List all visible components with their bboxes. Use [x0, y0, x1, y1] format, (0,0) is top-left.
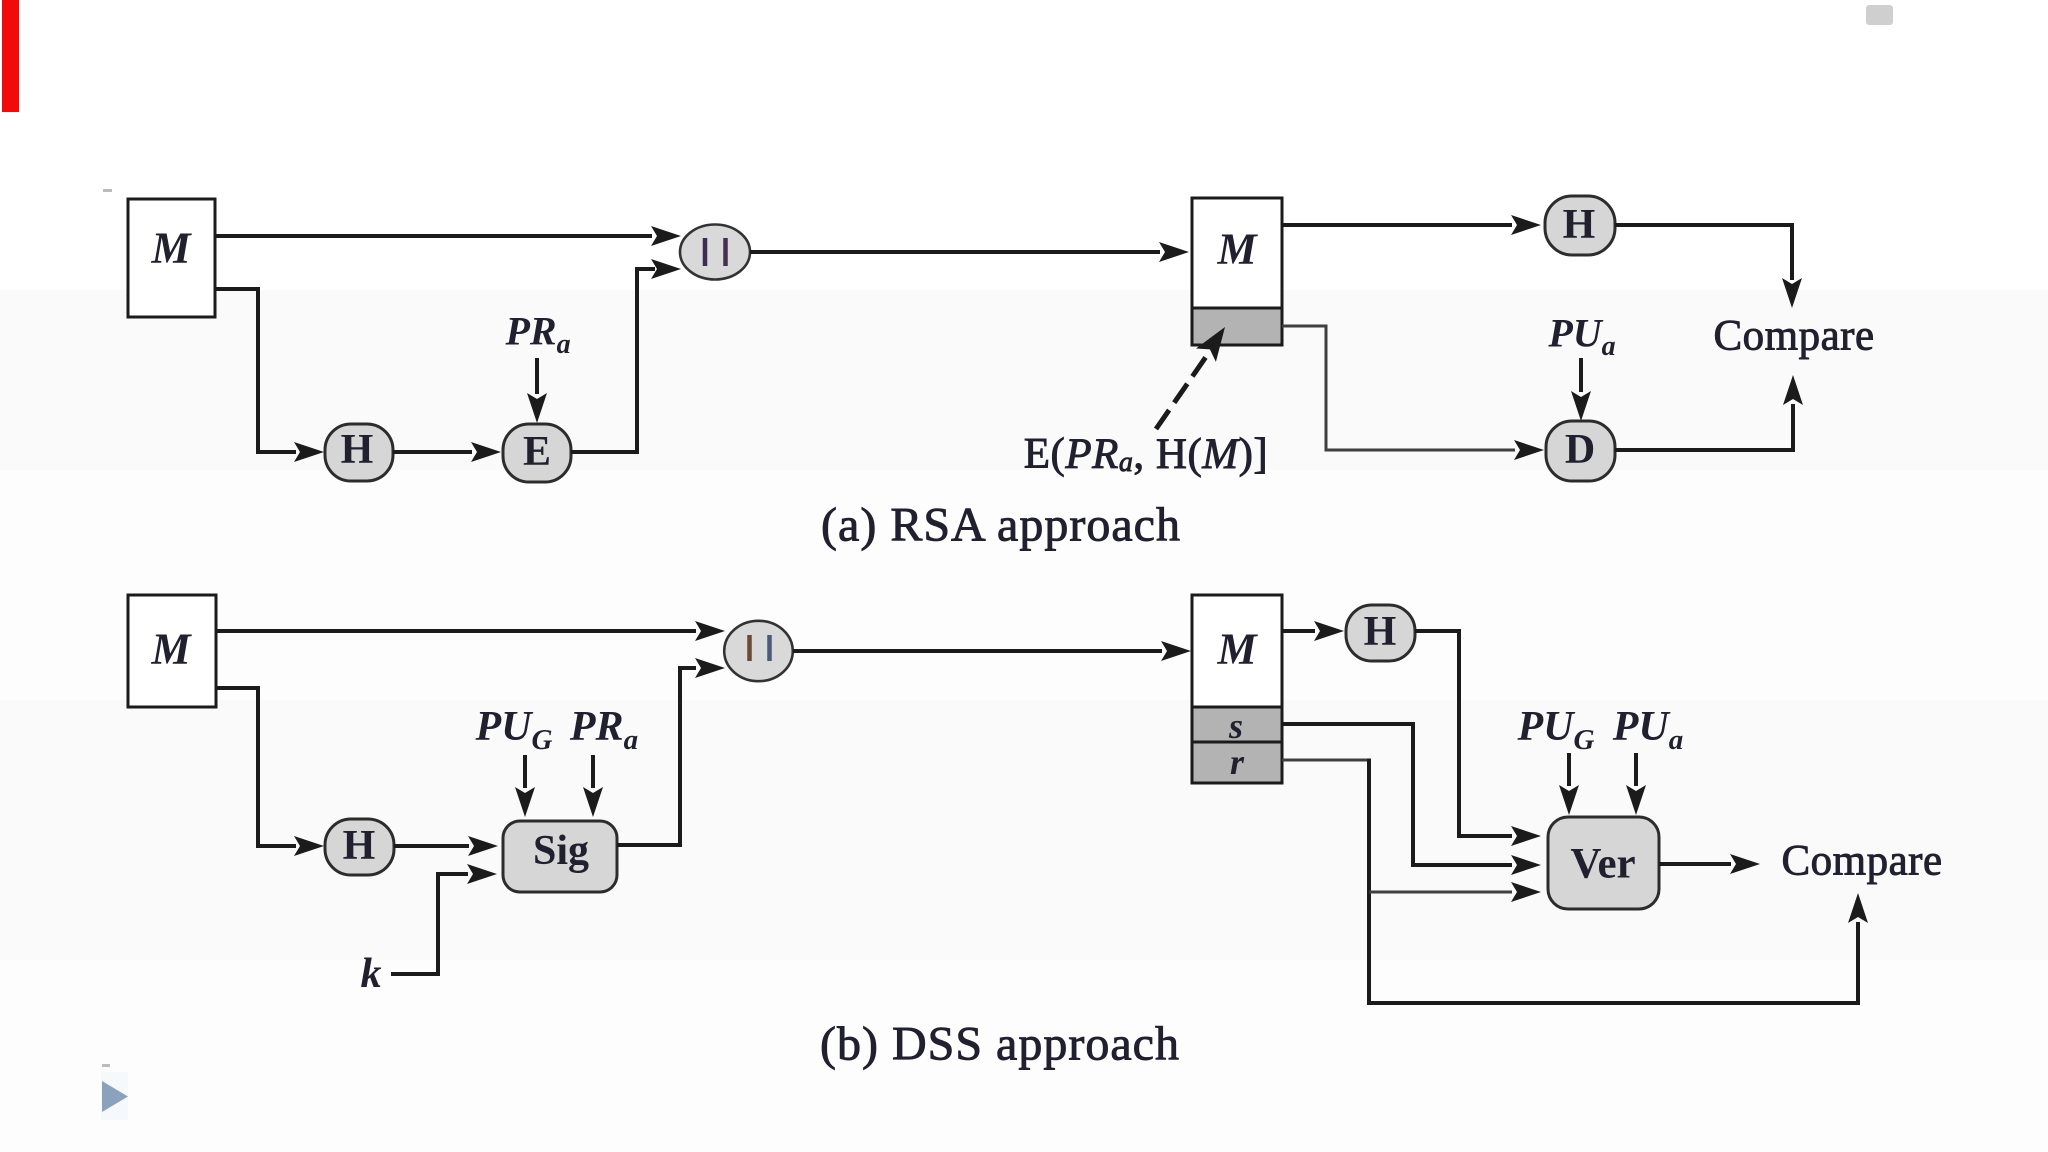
wire E up to concat (a) — [571, 259, 681, 452]
wire H to E (a) — [393, 442, 501, 462]
r block (b) — [1192, 742, 1282, 783]
message box M (b-right) — [1192, 595, 1282, 707]
branch wire r to Ver third input (b) — [1369, 882, 1541, 902]
small dash bottom-left — [102, 1064, 110, 1067]
wire s to Ver second input (b) — [1282, 724, 1541, 875]
wire k to Sig (b) — [391, 864, 497, 974]
svg-text:M: M — [150, 625, 192, 674]
wire H to Ver first input (b) — [1415, 631, 1541, 846]
small dash above message box (a) — [103, 189, 112, 192]
concat node || (a) — [680, 225, 750, 280]
svg-text:k: k — [361, 951, 382, 997]
wire signature block to D (a) — [1282, 326, 1544, 460]
svg-text:E(PRa, H(M)]: E(PRa, H(M)] — [1024, 431, 1268, 478]
gray widget top-right — [1866, 5, 1893, 25]
svg-text:M: M — [1216, 625, 1258, 674]
wire PRa down to E (a) — [527, 358, 547, 423]
wire M top to concat (b) — [216, 621, 725, 641]
svg-text:H: H — [341, 427, 374, 473]
sign node Sig (b) — [503, 821, 617, 892]
wire PUG down to Ver (b) — [1559, 753, 1579, 815]
svg-text:M: M — [1216, 225, 1258, 274]
signature gray block (a) — [1192, 308, 1282, 345]
wire M bottom to H (b) — [216, 688, 324, 856]
svg-text:H: H — [343, 823, 376, 869]
decrypt node D (a) — [1546, 421, 1615, 481]
svg-text:H: H — [1563, 202, 1596, 248]
svg-text:M: M — [150, 224, 192, 273]
svg-text:Ver: Ver — [1570, 841, 1635, 888]
dashed arrow to signature block (a) — [1156, 327, 1225, 429]
wire PUa down to D (a) — [1571, 358, 1591, 421]
hash node H (a-left) — [325, 424, 393, 481]
encrypt node E (a) — [503, 424, 571, 482]
svg-text:H: H — [1364, 609, 1397, 655]
s block (b) — [1192, 706, 1282, 746]
wire concat to M (a-right) — [750, 242, 1189, 262]
wire M top to concat (a) — [215, 226, 681, 246]
wire Ver to Compare (b) — [1659, 854, 1760, 874]
concat node || (b) — [724, 621, 793, 681]
svg-text:Sig: Sig — [533, 828, 589, 874]
hash node H (b-left) — [325, 819, 394, 875]
wire concat to M (b-right) — [793, 641, 1191, 661]
wire M bottom to H (a) — [215, 289, 324, 462]
wire M right to H (a-right) — [1282, 215, 1541, 235]
message box M (b-left) — [128, 595, 216, 707]
wire PRa down to Sig (b) — [583, 755, 603, 817]
slide bullet triangle — [102, 1081, 128, 1112]
wire H down to Compare (a) — [1615, 225, 1802, 308]
svg-text:(a) RSA approach: (a) RSA approach — [821, 499, 1181, 552]
wire M to H (b-right) — [1282, 621, 1344, 641]
message box M (a-right) — [1192, 198, 1282, 308]
verify node Ver (b) — [1548, 817, 1659, 909]
svg-text:E: E — [523, 429, 551, 475]
svg-text:D: D — [1565, 427, 1595, 473]
svg-text:Compare: Compare — [1713, 313, 1874, 360]
wire PUG down to Sig (b) — [515, 755, 535, 817]
red bar top-left — [2, 0, 19, 112]
message box M (a-left) — [128, 199, 215, 317]
wire H to Sig (b) — [394, 836, 498, 856]
hash node H (a-right) — [1545, 196, 1615, 255]
hash node H (b-right) — [1346, 605, 1415, 661]
light panel behind slide bullet — [101, 1072, 128, 1120]
svg-text:r: r — [1230, 742, 1245, 782]
svg-text:s: s — [1228, 706, 1243, 746]
svg-text:(b) DSS approach: (b) DSS approach — [820, 1018, 1180, 1071]
wire D up to Compare (a) — [1615, 375, 1803, 450]
wire PUa down to Ver (b) — [1626, 753, 1646, 815]
wire r to bottom rail and Compare (b) — [1282, 759, 1868, 1004]
wire Sig up to concat (b) — [617, 658, 725, 845]
svg-text:Compare: Compare — [1781, 838, 1942, 885]
